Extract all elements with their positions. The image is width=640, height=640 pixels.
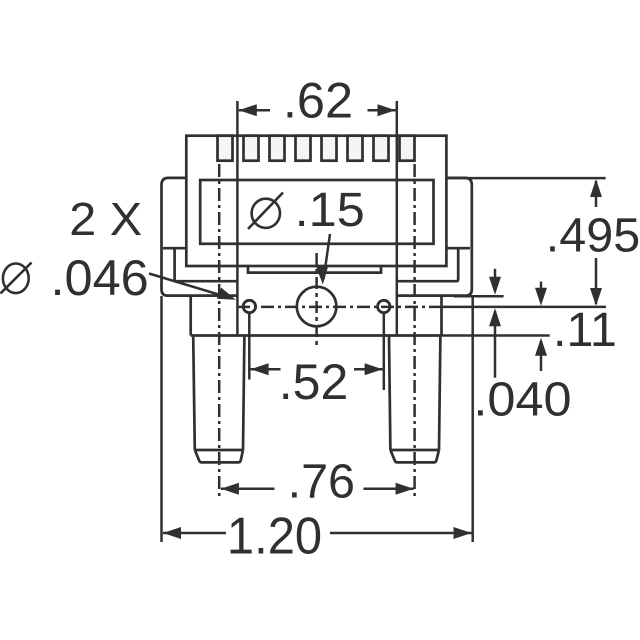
svg-text:.15: .15 — [295, 183, 365, 237]
dimension .495 upper stem and arrow — [595, 181, 598, 207]
hole centerline extension right — [442, 306, 607, 309]
svg-text:.52: .52 — [279, 354, 349, 410]
left pilot hole — [243, 300, 255, 312]
thin line layer: extensions, centerlines, dimensions — [149, 104, 606, 542]
right leg — [389, 336, 440, 463]
ear bottom extension line right — [454, 295, 504, 298]
notch under body — [248, 266, 381, 273]
plate bottom extension line right — [442, 334, 550, 337]
svg-text:.495: .495 — [546, 209, 640, 263]
right hole vertical extension — [383, 314, 386, 391]
center hole vertical centerline — [315, 253, 318, 345]
slot 6 — [348, 136, 363, 161]
svg-text:.62: .62 — [283, 71, 353, 128]
hole horizontal centerline — [237, 306, 442, 309]
dimension .040 upper stem and arrow — [494, 269, 497, 291]
svg-text:.046: .046 — [50, 249, 148, 306]
label 2 X — [69, 194, 142, 246]
base plate right edge — [440, 296, 443, 336]
center hole — [297, 287, 337, 327]
svg-text:2 X: 2 X — [69, 194, 142, 246]
right ear step — [397, 249, 458, 281]
dimension .495 lower stem and arrow — [595, 258, 598, 304]
body main outline — [186, 136, 446, 266]
dimension .52 right arrow — [354, 368, 383, 371]
window — [200, 180, 433, 244]
svg-text:1.20: 1.20 — [227, 507, 322, 564]
right ear outline — [397, 178, 472, 296]
right pilot hole — [378, 300, 390, 312]
label .495 — [546, 209, 640, 263]
leader line center hole — [324, 234, 330, 279]
slot 5 — [322, 136, 337, 161]
right pin centerline — [413, 164, 416, 497]
ear left edge extension down (1.20) — [160, 296, 163, 542]
slot 3 — [270, 136, 285, 161]
left ear parting line — [163, 247, 186, 250]
dimension .76 right arrow — [364, 487, 414, 490]
ear top extension line right — [446, 177, 605, 180]
dimension 1.20 left arrow — [163, 532, 226, 535]
leader line pilot holes — [149, 274, 223, 296]
base plate left edge — [189, 296, 192, 336]
inner cavity right edge / .62 extension line — [396, 101, 399, 334]
dimension .62 left arrow — [239, 109, 270, 112]
dimension .76 left arrow — [221, 487, 275, 490]
base plate bottom edge — [191, 334, 442, 337]
dimension 1.20 right arrow — [330, 532, 472, 535]
dimension .62 right arrow — [368, 109, 396, 112]
dimension .11 upper stem and arrow — [540, 282, 543, 302]
left hole vertical extension — [248, 314, 251, 380]
label .11 — [553, 303, 617, 357]
dimension .11 lower stem and arrow — [540, 341, 543, 371]
right ear parting line — [447, 247, 471, 250]
left leg — [193, 336, 244, 463]
ear right edge extension down (1.20) — [471, 296, 474, 542]
dimension .52 left arrow — [251, 368, 281, 371]
slot 4 — [296, 136, 311, 161]
label .52 — [279, 354, 349, 410]
slot 8 — [400, 136, 415, 161]
svg-text:.040: .040 — [473, 372, 571, 426]
label diameter symbol .046 — [1, 263, 32, 294]
left ear step — [175, 249, 237, 281]
svg-text:.11: .11 — [553, 303, 617, 357]
label .040 — [473, 372, 571, 426]
slot 2 — [244, 136, 259, 161]
slot 1 — [218, 136, 233, 161]
label .76 — [288, 455, 355, 509]
inner cavity left edge / .62 extension line — [236, 101, 239, 334]
left pin centerline — [218, 164, 221, 497]
label diameter symbol .15 — [248, 193, 283, 230]
svg-text:.76: .76 — [288, 455, 355, 509]
label .62 — [283, 71, 353, 128]
dimension .040 lower stem and arrow — [494, 311, 497, 378]
left ear outline — [162, 178, 237, 296]
slot 7 — [374, 136, 389, 161]
label 1.20 — [227, 507, 322, 564]
